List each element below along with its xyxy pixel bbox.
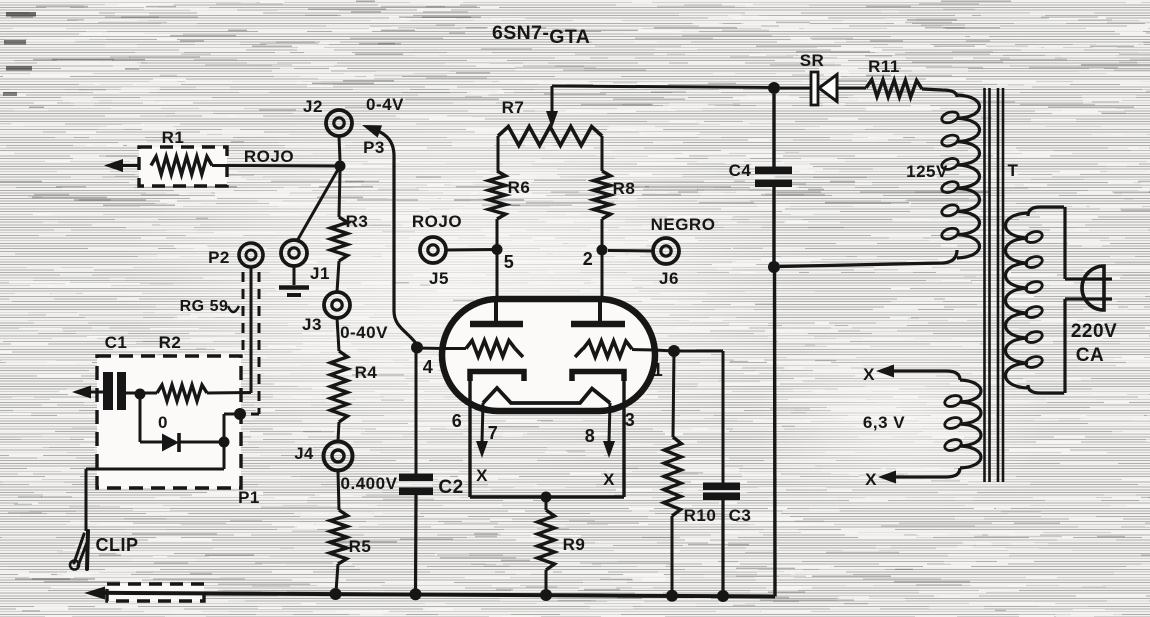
svg-text:CLIP: CLIP bbox=[95, 535, 138, 555]
svg-text:R5: R5 bbox=[349, 537, 372, 556]
wire to shield node A bbox=[224, 414, 240, 442]
node C4 / 125V return bbox=[768, 261, 780, 273]
svg-text:CA: CA bbox=[1076, 345, 1104, 366]
tube grid left (pin 4) bbox=[443, 341, 523, 358]
capacitor C3 bbox=[703, 483, 751, 597]
wire ROJO from R1 to node bbox=[212, 147, 337, 166]
node top rail / SR bbox=[768, 82, 780, 94]
clip CLIP bbox=[70, 531, 139, 570]
wire node4 down to C2 bbox=[415, 348, 418, 474]
svg-text:P1: P1 bbox=[238, 488, 260, 507]
svg-text:7: 7 bbox=[488, 423, 499, 443]
wire right vertical to rail bbox=[773, 267, 777, 597]
svg-text:R4: R4 bbox=[355, 363, 378, 382]
svg-text:3: 3 bbox=[625, 410, 636, 430]
jack P2 bbox=[208, 243, 263, 267]
X arrow 6.3V bottom bbox=[865, 470, 896, 489]
probe P3 curved arrow to J2 bbox=[362, 125, 417, 344]
wire primary to plug bbox=[1065, 207, 1112, 393]
svg-text:SR: SR bbox=[800, 51, 825, 70]
node C1/R2 junction bbox=[135, 389, 146, 400]
capacitor C4 bbox=[729, 94, 792, 267]
svg-text:J2: J2 bbox=[303, 97, 323, 116]
svg-text:0-40V: 0-40V bbox=[340, 323, 388, 342]
tube heater filaments (pins 7,8) bbox=[483, 388, 610, 403]
svg-text:5: 5 bbox=[504, 252, 515, 272]
wire bottom rail bbox=[100, 593, 775, 597]
tube plate right (pin 2 lead) bbox=[571, 301, 625, 324]
svg-text:X: X bbox=[603, 470, 615, 489]
svg-text:R6: R6 bbox=[508, 178, 531, 197]
node rail R9 bbox=[540, 589, 552, 601]
tube grid right (pin 1) bbox=[575, 341, 655, 357]
jack J3 with labels J3 / 0-40V bbox=[302, 261, 388, 351]
wiper arrow of R7 bbox=[546, 111, 558, 128]
node rail R5 bbox=[330, 588, 342, 600]
svg-text:X: X bbox=[863, 365, 875, 384]
node rail C2 bbox=[410, 588, 422, 600]
svg-text:R9: R9 bbox=[563, 535, 586, 554]
svg-text:C4: C4 bbox=[729, 161, 752, 180]
svg-text:2: 2 bbox=[583, 249, 594, 269]
svg-text:0: 0 bbox=[158, 413, 168, 432]
svg-text:ROJO: ROJO bbox=[412, 212, 462, 231]
wire top rail from R7 wiper bbox=[552, 86, 774, 113]
diode 0 bbox=[140, 413, 224, 452]
svg-text:J1: J1 bbox=[310, 264, 330, 283]
probe box P1 (dashed) bbox=[97, 356, 260, 507]
node 5 bbox=[492, 244, 515, 272]
node junction below J2 bbox=[335, 161, 346, 172]
node rail R10 bbox=[666, 590, 678, 602]
svg-text:T: T bbox=[1008, 161, 1019, 180]
svg-text:4: 4 bbox=[423, 357, 434, 377]
svg-text:P2: P2 bbox=[208, 248, 230, 267]
pin 8 lead with X arrow bbox=[603, 403, 615, 489]
svg-text:J5: J5 bbox=[429, 269, 449, 288]
svg-text:RG 59: RG 59 bbox=[180, 298, 229, 315]
pin 7 lead with X arrow bbox=[476, 403, 488, 485]
svg-text:R10: R10 bbox=[684, 506, 717, 525]
node 1 bbox=[668, 345, 680, 357]
mains plug 220V CA bbox=[1071, 266, 1117, 366]
svg-text:X: X bbox=[865, 470, 877, 489]
jack J2 with labels J2 / 0-4V bbox=[303, 95, 404, 161]
pin number labels bbox=[423, 357, 664, 446]
wire junction down to diode bbox=[139, 394, 142, 442]
transformer 6.3V winding bbox=[863, 371, 981, 477]
resistor R2 bbox=[157, 333, 251, 401]
svg-text:125V: 125V bbox=[906, 162, 948, 181]
ground below J1 bbox=[279, 266, 309, 295]
svg-text:6,3 V: 6,3 V bbox=[863, 413, 905, 432]
svg-text:R1: R1 bbox=[162, 128, 185, 147]
jack J6 NEGRO bbox=[608, 215, 715, 288]
svg-text:P3: P3 bbox=[363, 138, 385, 157]
svg-text:6: 6 bbox=[452, 411, 463, 431]
resistor R8 bbox=[594, 171, 636, 301]
svg-text:C1: C1 bbox=[105, 333, 128, 352]
resistor R9 bbox=[538, 497, 586, 594]
coax cable RG 59 dashed shield bbox=[180, 272, 259, 414]
svg-text:R7: R7 bbox=[502, 98, 525, 117]
potentiometer R7 bbox=[498, 98, 602, 171]
svg-text:X: X bbox=[476, 466, 488, 485]
svg-text:0.400V: 0.400V bbox=[341, 474, 398, 493]
wire node1 to C3 bbox=[674, 351, 723, 483]
svg-text:J3: J3 bbox=[302, 315, 322, 334]
wire 125V bottom return bbox=[780, 250, 957, 267]
node diode output B bbox=[219, 437, 230, 448]
resistor R11 bbox=[866, 57, 922, 97]
resistor R4 bbox=[331, 351, 378, 422]
svg-text:6SN7-GTA: 6SN7-GTA bbox=[492, 22, 590, 48]
svg-text:J4: J4 bbox=[294, 445, 314, 463]
capacitor C2 bbox=[399, 474, 464, 595]
node A on probe box edge bbox=[234, 408, 246, 420]
node 2 bbox=[583, 245, 608, 270]
svg-text:220V: 220V bbox=[1071, 321, 1117, 342]
resistor R5 bbox=[330, 510, 372, 592]
transformer 125V secondary winding bbox=[906, 89, 979, 258]
svg-text:1: 1 bbox=[653, 360, 664, 380]
wire common to clip bbox=[86, 442, 224, 531]
ground rail arrow + dashed box bbox=[84, 584, 204, 601]
svg-text:ROJO: ROJO bbox=[244, 147, 294, 166]
tube cathode right (pin 3) bbox=[572, 372, 624, 498]
wire tube to node 1 bbox=[655, 350, 674, 351]
svg-text:R2: R2 bbox=[159, 333, 182, 352]
tube plate left (pin 5 lead) bbox=[470, 301, 523, 324]
resistor R10 bbox=[664, 351, 717, 595]
tube U1 6SN7 envelope bbox=[442, 299, 655, 411]
node rail C3 bbox=[717, 590, 729, 602]
rectifier SR bbox=[780, 51, 866, 105]
resistor R6 bbox=[489, 171, 531, 301]
transformer core bbox=[985, 88, 1004, 482]
transformer 220V primary winding bbox=[1006, 207, 1065, 393]
resistor R3 bbox=[331, 171, 369, 261]
capacitor C1 (vertical bars, arrow left) bbox=[72, 333, 157, 410]
node cathode bus bbox=[541, 492, 552, 503]
svg-text:C3: C3 bbox=[729, 506, 752, 525]
X arrow 6.3V top bbox=[863, 365, 894, 385]
svg-text:0-4V: 0-4V bbox=[366, 95, 404, 114]
scan marks left edge bbox=[3, 12, 36, 96]
wire node4 to grid bbox=[417, 347, 444, 351]
wire P2 centre conductor down bbox=[250, 267, 253, 393]
jack J5 ROJO bbox=[412, 212, 492, 288]
svg-text:8: 8 bbox=[585, 426, 596, 446]
jack J4 with labels J4 / 0.400V bbox=[294, 422, 397, 510]
svg-text:NEGRO: NEGRO bbox=[651, 215, 716, 234]
node 4 bbox=[411, 342, 423, 354]
svg-text:J6: J6 bbox=[659, 269, 679, 288]
wire diagonal node to J1 bbox=[297, 166, 340, 241]
tube cathode left (pin 6) bbox=[470, 372, 524, 498]
svg-text:C2: C2 bbox=[438, 477, 463, 498]
svg-text:R3: R3 bbox=[346, 212, 369, 231]
resistor R1 (dashed box with zigzag, arrow left) bbox=[104, 128, 227, 186]
svg-text:R11: R11 bbox=[868, 57, 900, 76]
svg-text:R8: R8 bbox=[613, 179, 636, 198]
jack J1 bbox=[281, 240, 330, 283]
cathode bus wire bbox=[470, 495, 624, 498]
